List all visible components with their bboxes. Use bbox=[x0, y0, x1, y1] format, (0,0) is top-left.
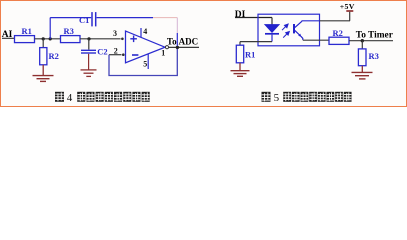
svg-text:R3: R3 bbox=[64, 26, 74, 36]
svg-text:5: 5 bbox=[274, 92, 280, 104]
svg-text:To Timer: To Timer bbox=[356, 31, 393, 41]
svg-text:DI: DI bbox=[235, 10, 246, 20]
svg-text:R3: R3 bbox=[369, 51, 379, 61]
svg-text:3: 3 bbox=[113, 29, 117, 38]
svg-text:To: To bbox=[167, 36, 177, 46]
svg-text:4: 4 bbox=[67, 92, 73, 104]
svg-text:4: 4 bbox=[143, 27, 147, 36]
svg-text:C1: C1 bbox=[79, 15, 89, 25]
svg-text:+5V: +5V bbox=[340, 2, 355, 11]
svg-text:1: 1 bbox=[161, 48, 165, 57]
svg-text:5: 5 bbox=[143, 59, 147, 68]
svg-text:C2: C2 bbox=[97, 46, 107, 56]
svg-text:R1: R1 bbox=[245, 50, 255, 60]
svg-text:R2: R2 bbox=[333, 28, 343, 38]
svg-text:ADC: ADC bbox=[179, 36, 199, 46]
svg-text:R2: R2 bbox=[49, 51, 59, 61]
svg-text:R1: R1 bbox=[22, 26, 32, 36]
